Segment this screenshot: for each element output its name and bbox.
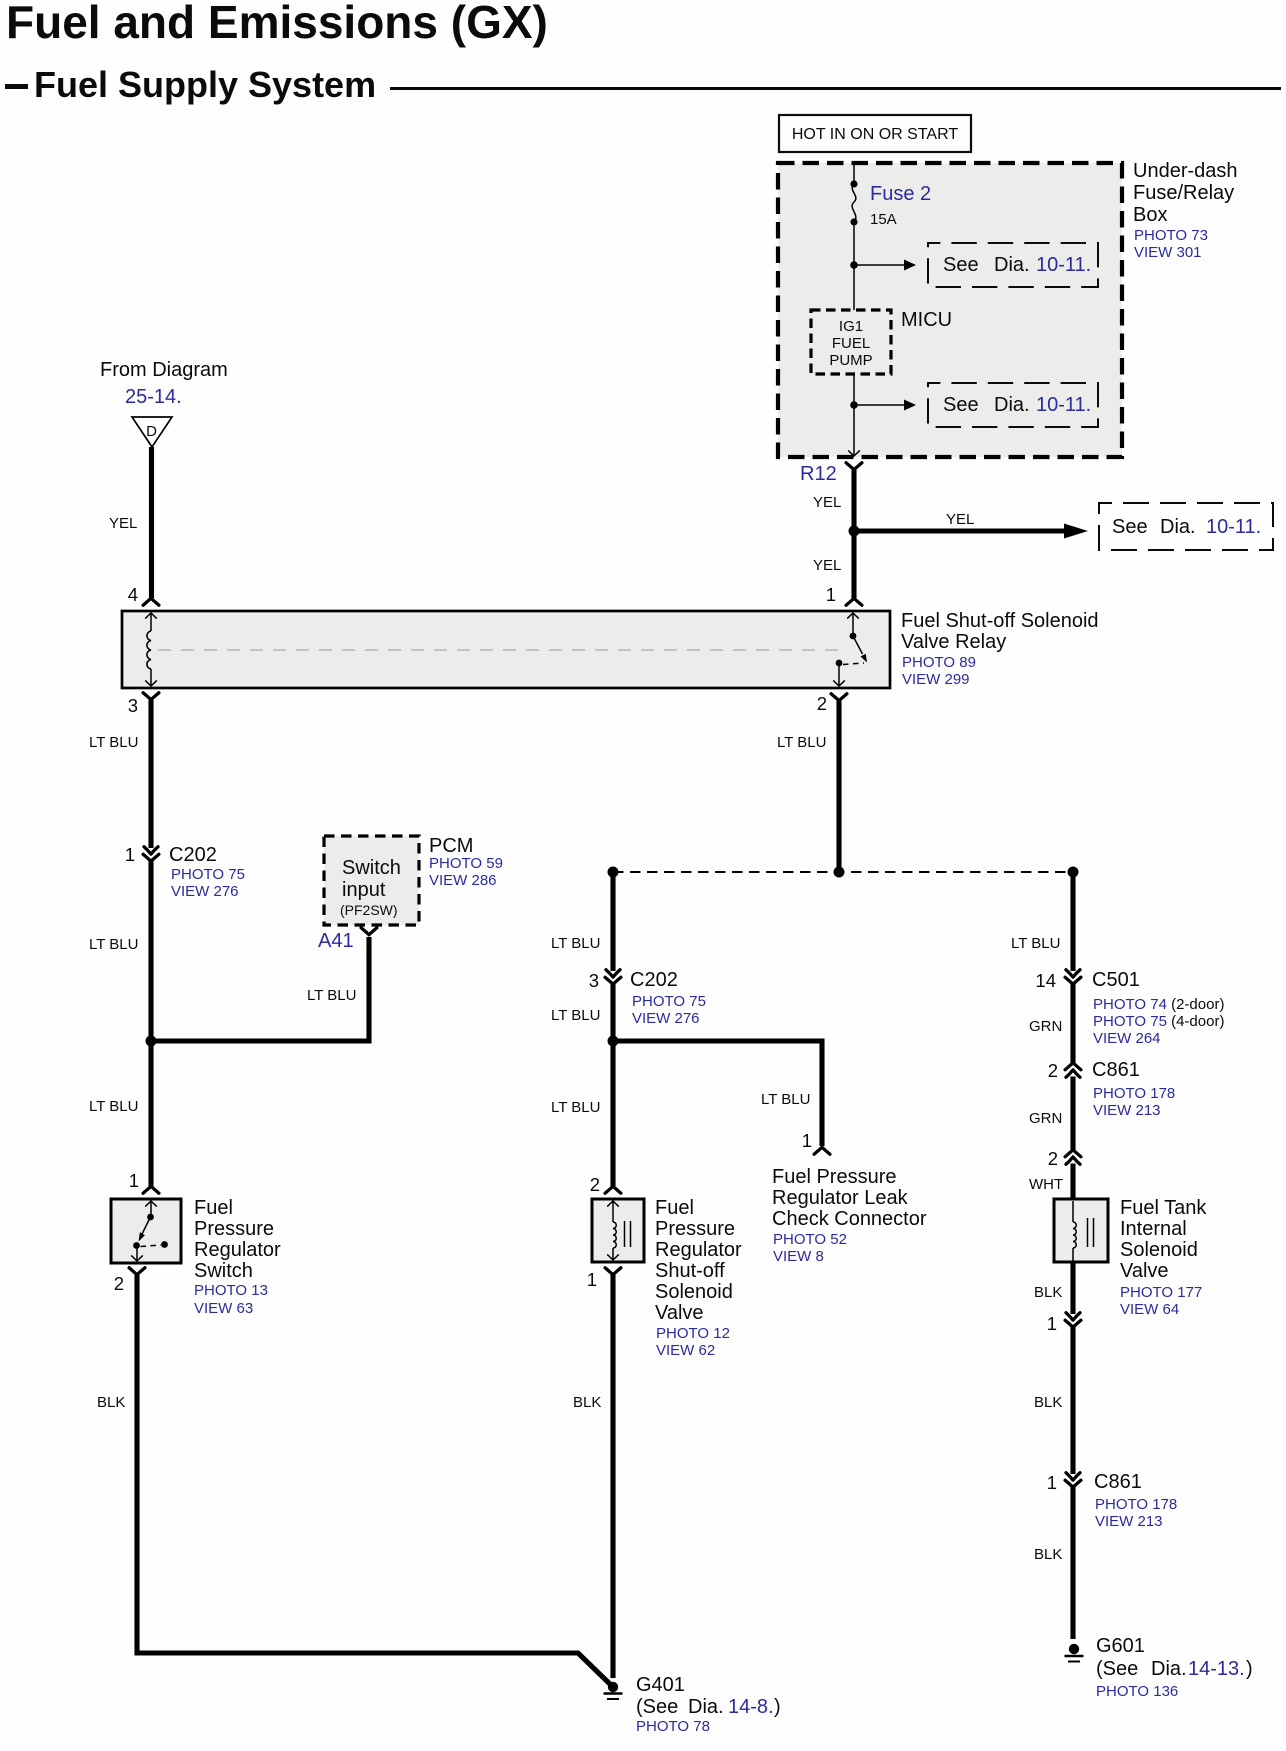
wire GRN from C501 to C861: [1070, 984, 1075, 1065]
svg-text:1: 1: [1047, 1313, 1057, 1334]
node at junction with PCM branch: [146, 1036, 157, 1047]
svg-text:FUEL: FUEL: [832, 335, 870, 352]
svg-text:PHOTO 178: PHOTO 178: [1095, 1496, 1177, 1513]
svg-text:(See: (See: [636, 1696, 678, 1718]
wire LT BLU branch to leak check connector: [613, 1041, 822, 1146]
svg-text:YEL: YEL: [109, 515, 137, 532]
svg-text:PHOTO 75: PHOTO 75: [171, 866, 245, 883]
svg-text:3: 3: [128, 695, 138, 716]
C202 label: [630, 969, 706, 1027]
svg-text:PHOTO 52: PHOTO 52: [773, 1231, 847, 1248]
svg-text:LT BLU: LT BLU: [551, 1099, 600, 1116]
svg-text:1: 1: [826, 584, 836, 605]
svg-text:PHOTO 73: PHOTO 73: [1134, 227, 1208, 244]
svg-text:VIEW 299: VIEW 299: [902, 671, 970, 688]
svg-text:Under-dash: Under-dash: [1133, 160, 1238, 182]
svg-text:Dia.: Dia.: [994, 254, 1030, 276]
svg-text:15A: 15A: [870, 211, 897, 228]
svg-text:14-8.: 14-8.: [728, 1696, 774, 1718]
svg-text:Valve: Valve: [655, 1302, 704, 1324]
svg-text:Box: Box: [1133, 204, 1167, 226]
svg-text:VIEW 301: VIEW 301: [1134, 244, 1202, 261]
svg-text:Dia.: Dia.: [1160, 516, 1196, 538]
svg-text:PHOTO 78: PHOTO 78: [636, 1718, 710, 1735]
svg-text:Dia.: Dia.: [994, 394, 1030, 416]
svg-text:YEL: YEL: [946, 511, 974, 528]
wire IG1 box to fuse box bottom: [853, 374, 855, 456]
svg-text:LT BLU: LT BLU: [761, 1091, 810, 1108]
svg-text:VIEW 63: VIEW 63: [194, 1300, 253, 1317]
svg-text:Regulator: Regulator: [194, 1239, 281, 1261]
hot in on or start label box: [779, 115, 971, 152]
C501 label: [1092, 969, 1224, 1047]
svg-text:input: input: [342, 879, 386, 901]
svg-text:VIEW 62: VIEW 62: [656, 1342, 715, 1359]
pin 1 terminal cup at solenoid valve: [605, 1268, 621, 1275]
svg-text:PCM: PCM: [429, 835, 473, 857]
connector C861 (pin 2): [1065, 1063, 1081, 1078]
svg-text:G401: G401: [636, 1674, 685, 1696]
fuel pressure regulator switch label: [194, 1197, 281, 1317]
svg-text:BLK: BLK: [97, 1394, 125, 1411]
svg-text:PUMP: PUMP: [829, 352, 872, 369]
wire YEL from triangle D to relay pin 4: [149, 447, 154, 598]
IG1 FUEL PUMP box (MICU): [811, 310, 891, 374]
svg-text:R12: R12: [800, 463, 837, 485]
svg-text:Switch: Switch: [342, 857, 401, 879]
svg-text:LT BLU: LT BLU: [777, 734, 826, 751]
svg-text:BLK: BLK: [573, 1394, 601, 1411]
wire WHT into fuel tank valve: [1070, 1164, 1075, 1201]
svg-text:PHOTO 13: PHOTO 13: [194, 1282, 268, 1299]
svg-text:See: See: [1112, 516, 1148, 538]
node right on dashed line: [1068, 867, 1079, 878]
svg-text:LT BLU: LT BLU: [89, 936, 138, 953]
section title dash: [5, 84, 28, 89]
svg-text:PHOTO 75 (4-door): PHOTO 75 (4-door): [1093, 1013, 1224, 1030]
fuel pressure regulator shut-off solenoid valve label: [655, 1197, 742, 1359]
wire LT BLU from relay pin 2 down: [836, 701, 841, 872]
svg-text:14-13.: 14-13.: [1188, 1658, 1245, 1680]
svg-text:Fuse 2: Fuse 2: [870, 183, 931, 205]
svg-text:Regulator: Regulator: [655, 1239, 742, 1261]
ground G401: [604, 1682, 623, 1699]
relay coil (pins 4-3): [145, 613, 157, 686]
svg-text:VIEW 276: VIEW 276: [171, 883, 239, 900]
svg-text:Fuel Supply System: Fuel Supply System: [34, 64, 376, 105]
svg-text:10-11.: 10-11.: [1206, 516, 1261, 538]
pin 3 terminal cup: [143, 693, 159, 700]
pin 4 terminal cup: [143, 598, 159, 605]
fuel pressure regulator leak check connector label: [772, 1166, 927, 1265]
inline connector (pin 1, fuel tank valve): [1065, 1313, 1081, 1328]
pin 1 terminal cup: [846, 598, 862, 605]
fuel pressure regulator switch box: [111, 1199, 181, 1263]
svg-text:VIEW 264: VIEW 264: [1093, 1030, 1161, 1047]
svg-text:C202: C202: [169, 844, 217, 866]
svg-text:): ): [774, 1696, 781, 1718]
PCM switch input box: [324, 836, 419, 925]
svg-text:14: 14: [1035, 970, 1056, 991]
svg-text:MICU: MICU: [901, 309, 952, 331]
svg-text:From Diagram: From Diagram: [100, 359, 228, 381]
pin A41 terminal cup: [361, 928, 377, 935]
svg-text:A41: A41: [318, 930, 354, 952]
pin 2 terminal cup at solenoid valve: [605, 1186, 621, 1193]
svg-text:LT BLU: LT BLU: [89, 1098, 138, 1115]
section title rule: [390, 87, 1281, 90]
connector C202 (pin 3): [605, 970, 621, 985]
see dia 10-11 box (right): [1099, 503, 1273, 550]
svg-text:PHOTO 178: PHOTO 178: [1093, 1085, 1175, 1102]
svg-text:Regulator Leak: Regulator Leak: [772, 1187, 909, 1209]
pin arrow at fuse box exit: [848, 450, 860, 456]
svg-text:Solenoid: Solenoid: [1120, 1239, 1198, 1261]
wire GRN from C861 down: [1070, 1077, 1075, 1152]
pin 2 terminal cup at switch: [129, 1268, 145, 1275]
relay label: [901, 610, 1099, 688]
svg-text:Check Connector: Check Connector: [772, 1208, 927, 1230]
ground G601: [1065, 1644, 1084, 1662]
svg-text:Fuel Tank: Fuel Tank: [1120, 1197, 1207, 1219]
G601 label: [1096, 1635, 1253, 1700]
svg-text:BLK: BLK: [1034, 1546, 1062, 1563]
wire BLK from solenoid valve to ground G401: [610, 1275, 615, 1678]
wire LT BLU from C202 to switch pin 1: [148, 861, 153, 1187]
svg-text:PHOTO 12: PHOTO 12: [656, 1325, 730, 1342]
svg-text:3: 3: [589, 970, 599, 991]
svg-text:HOT IN ON OR START: HOT IN ON OR START: [792, 126, 958, 143]
wire LT BLU from C202 to solenoid valve: [610, 984, 615, 1187]
fuel shut-off solenoid valve relay box: [122, 611, 890, 688]
node: branch to See Dia (lower): [850, 400, 916, 411]
inline connector (pin 2, fuel tank harness): [1065, 1150, 1081, 1165]
svg-text:Fuel: Fuel: [194, 1197, 233, 1219]
svg-text:YEL: YEL: [813, 557, 841, 574]
svg-text:VIEW 213: VIEW 213: [1095, 1513, 1163, 1530]
svg-text:Valve: Valve: [1120, 1260, 1169, 1282]
solenoid symbol inside: [1073, 1201, 1094, 1261]
svg-text:VIEW 286: VIEW 286: [429, 872, 497, 889]
svg-text:Dia.: Dia.: [688, 1696, 724, 1718]
svg-text:Fuel: Fuel: [655, 1197, 694, 1219]
relay internal dashed link line: [158, 649, 846, 651]
pin 1 terminal cup at switch: [143, 1186, 159, 1193]
svg-text:IG1: IG1: [839, 318, 863, 335]
solenoid symbol inside: [607, 1201, 630, 1260]
wire LT BLU from A41 to junction: [151, 937, 369, 1041]
under-dash fuse/relay box: [778, 163, 1122, 457]
svg-text:GRN: GRN: [1029, 1110, 1062, 1127]
svg-text:PHOTO 59: PHOTO 59: [429, 855, 503, 872]
wire BLK from switch pin 2 to ground G401: [137, 1275, 612, 1686]
svg-text:Solenoid: Solenoid: [655, 1281, 733, 1303]
from diagram label: [100, 359, 228, 408]
G401 label: [636, 1674, 781, 1735]
wire BLK to ground G601: [1070, 1487, 1075, 1640]
PCM label: [429, 835, 503, 889]
svg-text:See: See: [943, 254, 979, 276]
svg-text:Fuel Shut-off Solenoid: Fuel Shut-off Solenoid: [901, 610, 1099, 632]
C202 label: [169, 844, 245, 900]
svg-text:Pressure: Pressure: [194, 1218, 274, 1240]
node at leak connector branch: [608, 1036, 619, 1047]
svg-text:D: D: [146, 423, 157, 440]
connector triangle D: [132, 417, 172, 447]
svg-text:2: 2: [1048, 1060, 1058, 1081]
fuse 2 (15A): [850, 180, 931, 228]
svg-text:LT BLU: LT BLU: [1011, 935, 1060, 952]
wire (thin) from box top to fuse: [853, 163, 855, 184]
svg-text:VIEW 213: VIEW 213: [1093, 1102, 1161, 1119]
wire LT BLU right branch down to C501: [1070, 872, 1075, 971]
svg-text:Switch: Switch: [194, 1260, 253, 1282]
svg-text:1: 1: [587, 1269, 597, 1290]
node center on dashed line: [834, 867, 845, 878]
svg-text:2: 2: [1048, 1148, 1058, 1169]
arrowhead to see dia: [1064, 524, 1088, 539]
svg-text:VIEW 276: VIEW 276: [632, 1010, 700, 1027]
svg-text:LT BLU: LT BLU: [551, 1007, 600, 1024]
svg-text:1: 1: [1047, 1472, 1057, 1493]
svg-text:BLK: BLK: [1034, 1394, 1062, 1411]
svg-text:GRN: GRN: [1029, 1018, 1062, 1035]
wire fuse to IG1 box: [853, 222, 855, 310]
svg-text:PHOTO 177: PHOTO 177: [1120, 1284, 1202, 1301]
svg-text:C861: C861: [1092, 1059, 1140, 1081]
leak check connector terminal cup: [814, 1147, 830, 1154]
svg-text:Dia.: Dia.: [1151, 1658, 1187, 1680]
svg-text:1: 1: [125, 844, 135, 865]
connector C202 (pin 1): [143, 847, 159, 862]
svg-text:PHOTO 75: PHOTO 75: [632, 993, 706, 1010]
svg-text:VIEW 8: VIEW 8: [773, 1248, 824, 1265]
under-dash fuse/relay box label: [1133, 160, 1238, 261]
svg-text:2: 2: [590, 1174, 600, 1195]
see dia 10-11 box (upper): [928, 243, 1098, 287]
node on YEL wire: [849, 526, 860, 537]
svg-text:Internal: Internal: [1120, 1218, 1187, 1240]
svg-text:VIEW 64: VIEW 64: [1120, 1301, 1179, 1318]
svg-text:Shut-off: Shut-off: [655, 1260, 725, 1282]
wire YEL branch to see dia: [854, 528, 1066, 533]
svg-text:PHOTO 74 (2-door): PHOTO 74 (2-door): [1093, 996, 1224, 1013]
svg-text:Fuel Pressure: Fuel Pressure: [772, 1166, 897, 1188]
node: branch to See Dia (upper): [850, 260, 916, 271]
svg-text:Pressure: Pressure: [655, 1218, 735, 1240]
wire BLK from valve down to pin 1 connector: [1070, 1262, 1075, 1314]
wire BLK down to C861: [1070, 1327, 1075, 1475]
fuel tank internal solenoid valve box: [1054, 1199, 1108, 1262]
svg-text:See: See: [943, 394, 979, 416]
fuel tank internal solenoid valve label: [1120, 1197, 1207, 1318]
svg-text:WHT: WHT: [1029, 1176, 1063, 1193]
wire YEL from R12 to relay pin 1: [851, 470, 856, 598]
relay switch (pins 1-2): [833, 613, 867, 686]
svg-text:LT BLU: LT BLU: [307, 987, 356, 1004]
see dia 10-11 box (lower): [928, 383, 1098, 427]
C861 label (lower): [1094, 1471, 1177, 1530]
connector C861 (pin 1): [1065, 1473, 1081, 1488]
svg-text:G601: G601: [1096, 1635, 1145, 1657]
svg-text:LT BLU: LT BLU: [551, 935, 600, 952]
svg-text:(See: (See: [1096, 1658, 1138, 1680]
svg-text:PHOTO 89: PHOTO 89: [902, 654, 976, 671]
svg-text:): ): [1246, 1658, 1253, 1680]
svg-text:PHOTO 136: PHOTO 136: [1096, 1683, 1178, 1700]
svg-text:10-11.: 10-11.: [1036, 254, 1091, 276]
svg-text:C501: C501: [1092, 969, 1140, 991]
svg-text:25-14.: 25-14.: [125, 386, 182, 408]
svg-text:1: 1: [129, 1170, 139, 1191]
connector C501 (pin 14): [1065, 970, 1081, 985]
connector terminal R12: [800, 463, 862, 485]
svg-text:C202: C202: [630, 969, 678, 991]
node left on dashed line: [608, 867, 619, 878]
svg-text:C861: C861: [1094, 1471, 1142, 1493]
svg-text:Valve Relay: Valve Relay: [901, 631, 1006, 653]
svg-text:BLK: BLK: [1034, 1284, 1062, 1301]
wire LT BLU relay pin 3 to C202: [148, 700, 153, 848]
svg-text:10-11.: 10-11.: [1036, 394, 1091, 416]
svg-text:1: 1: [802, 1130, 812, 1151]
svg-text:LT BLU: LT BLU: [89, 734, 138, 751]
svg-text:Fuel and Emissions (GX): Fuel and Emissions (GX): [6, 0, 548, 48]
svg-text:4: 4: [128, 584, 138, 605]
C861 label: [1092, 1059, 1175, 1119]
pin 2 terminal cup: [831, 694, 847, 701]
svg-text:2: 2: [817, 693, 827, 714]
dashed branch line: [613, 871, 1073, 873]
wire LT BLU down to C202 pin 3: [610, 872, 615, 971]
svg-text:Fuse/Relay: Fuse/Relay: [1133, 182, 1234, 204]
svg-text:(PF2SW): (PF2SW): [340, 902, 398, 918]
svg-text:YEL: YEL: [813, 494, 841, 511]
switch symbol inside: [131, 1201, 168, 1261]
fuel pressure regulator shut-off solenoid valve box: [592, 1199, 644, 1262]
svg-text:2: 2: [114, 1273, 124, 1294]
